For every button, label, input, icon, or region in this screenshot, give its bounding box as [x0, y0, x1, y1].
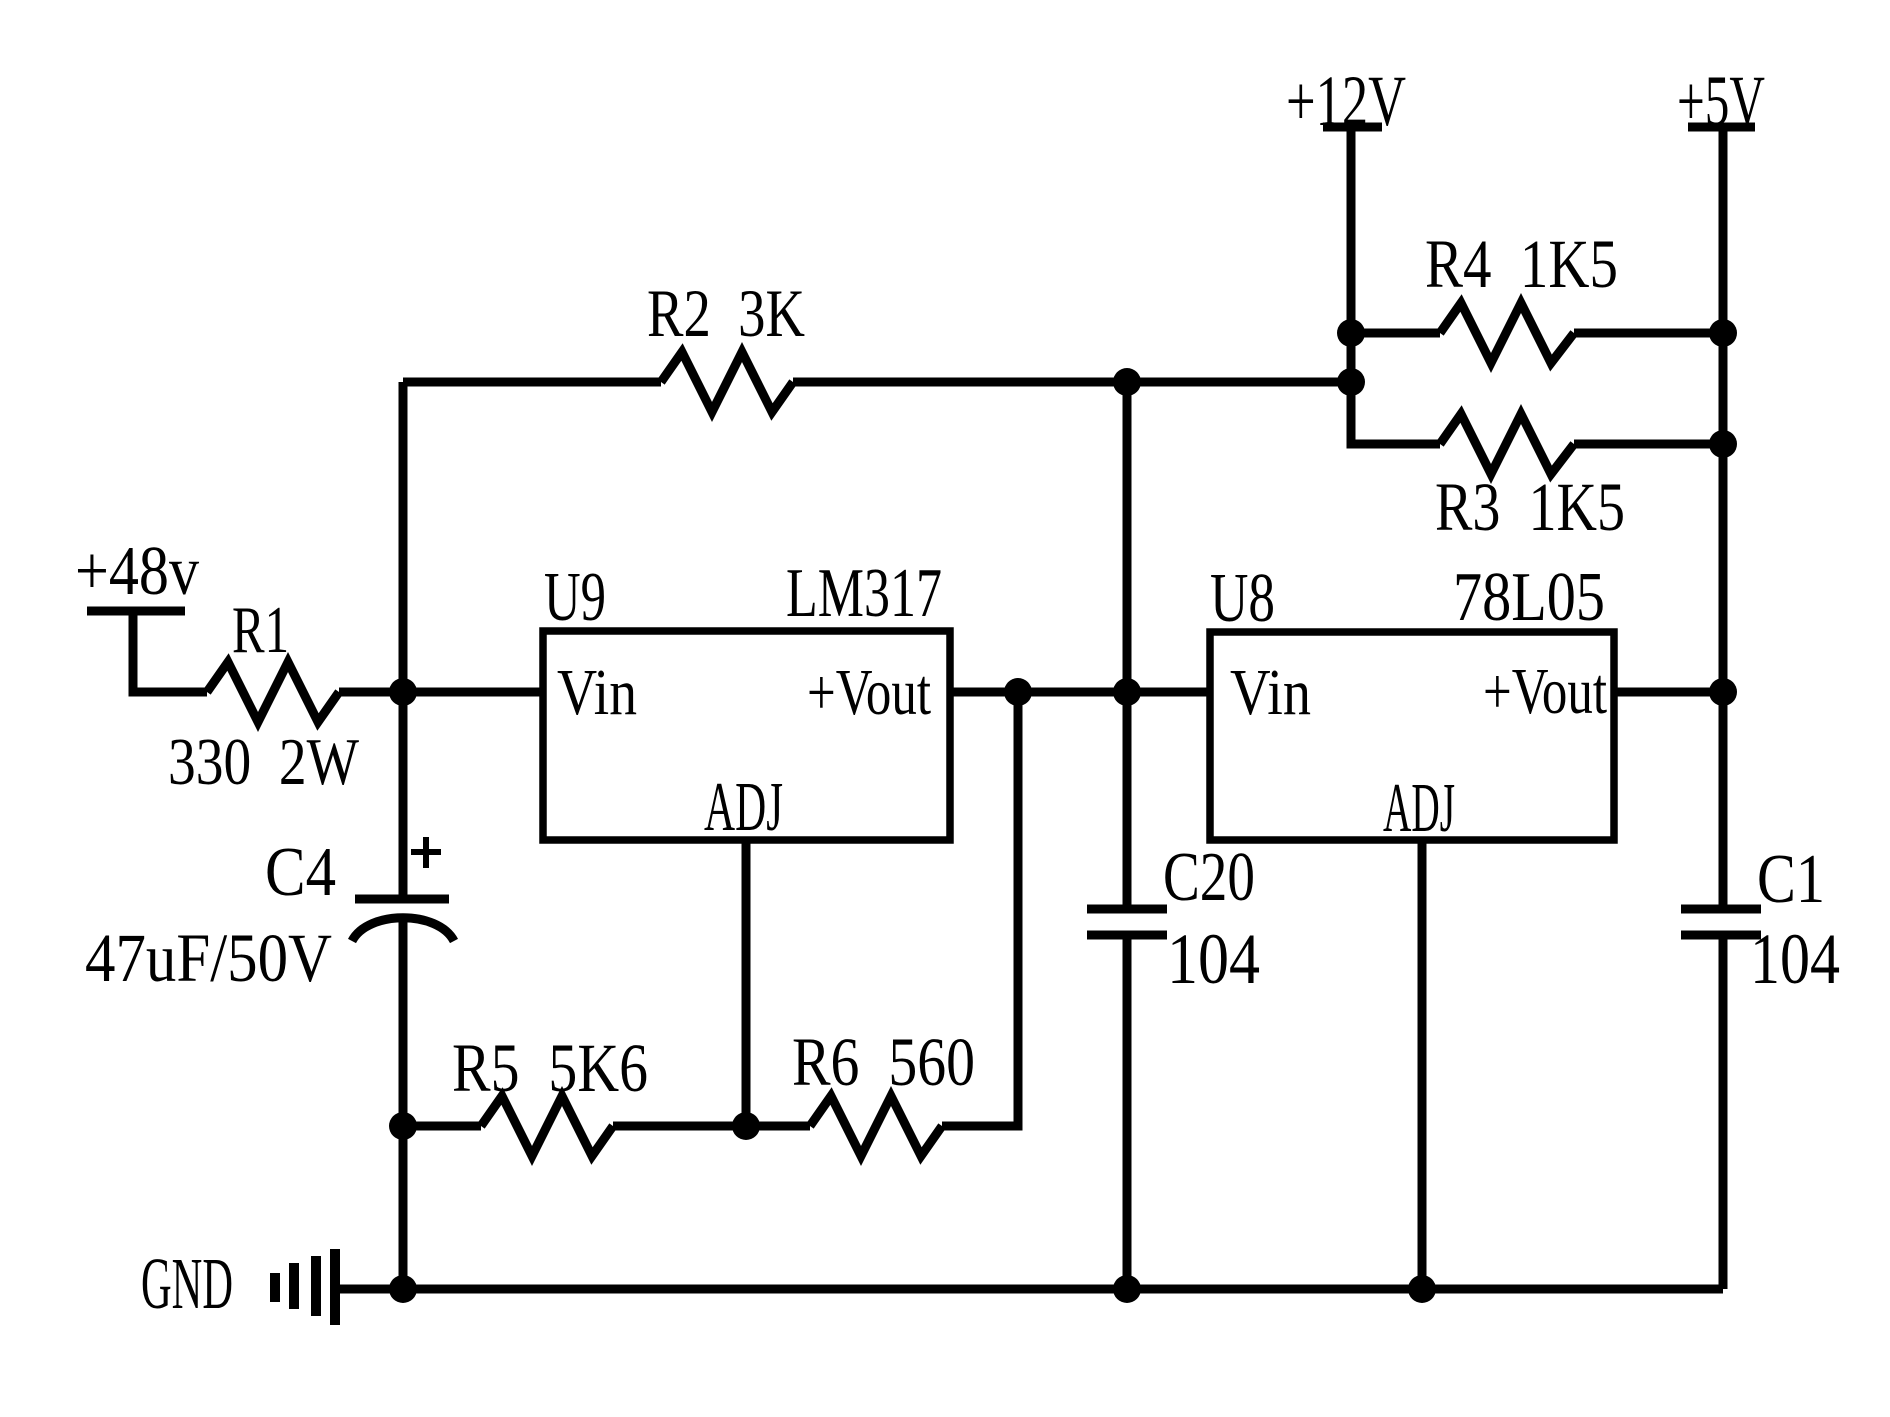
wire +48v stub to R1 left lead: [133, 615, 207, 692]
svg-text:R6 560: R6 560: [792, 1024, 975, 1100]
junction node N (+5V riser / U8 +Vout): [1709, 678, 1737, 706]
power symbol +48v bar: [87, 607, 185, 616]
svg-text:R4 1K5: R4 1K5: [1425, 226, 1618, 302]
wire U8 ADJ pin down to ground rail: [1418, 840, 1427, 1289]
capacitor C1 bottom plate: [1681, 931, 1761, 940]
svg-text:104: 104: [1167, 919, 1260, 999]
resistor R3 zigzag: [1440, 414, 1574, 474]
junction node E (U9 +Vout / R6 riser): [1004, 678, 1032, 706]
svg-text:78L05: 78L05: [1453, 559, 1605, 636]
resistor R2 zigzag: [661, 352, 793, 412]
svg-text:GND: GND: [141, 1243, 233, 1324]
IC U9 box: [543, 631, 950, 840]
capacitor C4 top plate: [355, 895, 449, 904]
svg-text:C20: C20: [1163, 839, 1255, 916]
wire R2 to +12V riser node J: [793, 378, 1351, 387]
capacitor C4 curved bottom plate: [352, 918, 454, 941]
wire R2 node down through C20 top: [1123, 382, 1132, 909]
junction node B (C4 / R5): [389, 1112, 417, 1140]
power symbol +5V bar: [1688, 123, 1755, 132]
capacitor C1 top plate: [1681, 905, 1761, 914]
IC U8 box: [1210, 632, 1614, 840]
svg-text:U9: U9: [544, 559, 606, 636]
junction node H (ground rail / C20): [1113, 1275, 1141, 1303]
svg-text:Vin: Vin: [557, 656, 637, 729]
junction node C (ground / C4 branch): [389, 1275, 417, 1303]
svg-text:U8: U8: [1210, 560, 1275, 637]
resistor R4 zigzag: [1440, 303, 1574, 363]
svg-text:R1: R1: [232, 593, 289, 667]
junction node A (R1 / feedback riser): [389, 678, 417, 706]
ground rail wire: [335, 1285, 1723, 1294]
wire +12V riser down to R3 bend: [1351, 127, 1440, 444]
junction node J (+12V riser / R2 wire): [1337, 368, 1365, 396]
wire U9 +Vout to U8 Vin: [950, 688, 1210, 697]
wire R5 to ADJ node D: [613, 1122, 746, 1131]
junction node K (ground rail / U8 ADJ): [1408, 1275, 1436, 1303]
power symbol +12V bar: [1323, 123, 1382, 132]
wire U8 +Vout to +5V rail: [1614, 688, 1723, 697]
junction node F (R2 wire / C20 riser top): [1113, 368, 1141, 396]
resistor R1 zigzag: [207, 662, 339, 722]
wire R1 to U9 Vin through node A: [339, 688, 543, 697]
svg-text:R3 1K5: R3 1K5: [1435, 469, 1625, 545]
svg-text:47uF/50V: 47uF/50V: [85, 920, 332, 996]
resistor R6 zigzag: [810, 1096, 942, 1156]
resistor R6 left lead: [746, 1122, 810, 1131]
svg-text:C1: C1: [1757, 841, 1825, 918]
junction node I (+12V riser / R4): [1337, 319, 1365, 347]
C4 polarity plus sign: [411, 849, 441, 855]
wire R4 to +5V rail: [1574, 329, 1723, 338]
wire top rail to R2 left lead: [403, 378, 661, 387]
svg-text:Vin: Vin: [1230, 656, 1311, 729]
junction node D (U9 ADJ / R5 / R6): [732, 1112, 760, 1140]
resistor R4 left lead: [1351, 329, 1440, 338]
svg-text:+48v: +48v: [75, 533, 199, 610]
wire U9 ADJ pin down to R5/R6 node: [742, 840, 751, 1126]
wire C1 to ground rail corner: [1719, 935, 1728, 1289]
svg-text:C4: C4: [265, 834, 336, 911]
junction node G (main rail / C20 riser): [1113, 678, 1141, 706]
svg-text:ADJ: ADJ: [1383, 770, 1455, 847]
svg-text:R2 3K: R2 3K: [647, 275, 805, 351]
wire R3 to +5V rail: [1574, 440, 1723, 449]
capacitor C20 top plate: [1087, 905, 1167, 914]
svg-text:+Vout: +Vout: [1483, 655, 1607, 728]
junction node M (+5V riser / R3): [1709, 430, 1737, 458]
wire R6 up to U9 +Vout node E: [942, 692, 1018, 1126]
wire C4 to ground rail: [399, 916, 408, 1289]
svg-text:330 2W: 330 2W: [168, 725, 360, 799]
wire C20 to ground rail: [1123, 935, 1132, 1289]
svg-text:R5 5K6: R5 5K6: [452, 1030, 648, 1106]
svg-text:+12V: +12V: [1286, 61, 1406, 141]
junction node L (+5V riser / R4): [1709, 319, 1737, 347]
svg-text:104: 104: [1750, 919, 1840, 999]
svg-text:ADJ: ADJ: [704, 769, 783, 846]
svg-text:+5V: +5V: [1677, 61, 1765, 141]
wire +5V riser down to C1 top plate: [1719, 127, 1728, 909]
capacitor C20 bottom plate: [1087, 931, 1167, 940]
ground symbol bars: [270, 1273, 280, 1302]
svg-text:LM317: LM317: [786, 555, 942, 632]
svg-text:+Vout: +Vout: [807, 656, 931, 729]
wire node A feedback riser to R2 wire: [399, 382, 408, 899]
resistor R5 left lead from node B: [403, 1122, 481, 1131]
resistor R5 zigzag: [481, 1096, 613, 1156]
